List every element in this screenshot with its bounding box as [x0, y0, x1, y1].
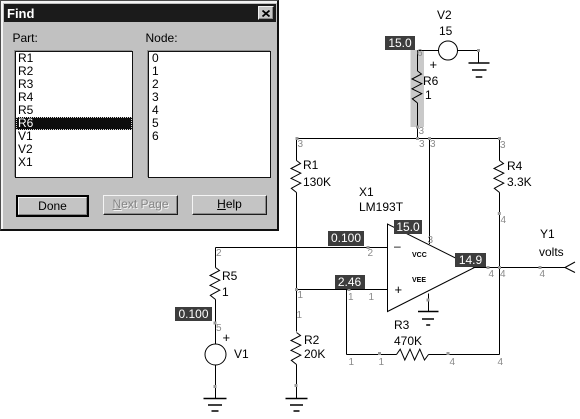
label X1: [359, 186, 374, 198]
V2 plus sign: [430, 59, 438, 71]
node 4 (R4 bottom pin): [501, 216, 507, 226]
resistor R3: [347, 349, 500, 360]
resistor R5: [210, 248, 220, 345]
node 4 (R3 right corner): [498, 358, 504, 368]
node 3 (vcc pin): [428, 236, 434, 246]
node 3 (R1): [298, 140, 304, 150]
label R4: [507, 160, 522, 172]
node 4 (output left): [489, 270, 495, 280]
value 1 (R6): [425, 89, 432, 101]
node 1 (R3 left): [349, 358, 355, 368]
value 3.3K: [507, 176, 532, 188]
label V2: [437, 9, 452, 21]
op-amp plus sign: [395, 284, 403, 296]
label R6: [423, 75, 438, 87]
value badge 15.0 (top): [385, 36, 415, 50]
label R5: [222, 270, 237, 282]
op-amp vcc pin label: [412, 250, 427, 262]
Node listbox: [148, 51, 271, 178]
node 1 (plus pin): [369, 293, 375, 303]
wire plus input: [297, 289, 388, 291]
node 3 bus wire: [297, 138, 500, 140]
value badge 14.9 (output): [455, 253, 486, 267]
value 1 (R5): [222, 286, 229, 298]
value badge 0.100 (V1): [175, 307, 212, 321]
value 130K: [303, 176, 331, 188]
node 4 (R3 right pin): [450, 358, 456, 368]
node 1 (R2 top): [297, 311, 303, 321]
label V1: [234, 348, 249, 360]
node 2 (minus pin): [368, 249, 374, 259]
wire V1 to ground: [215, 365, 217, 399]
resistor R4: [494, 139, 504, 355]
voltage source V2: [439, 41, 458, 60]
wire R3 feedback drop: [346, 290, 348, 355]
node 4 (Y1 pin): [540, 270, 546, 280]
Part: label: [13, 31, 38, 45]
wire output: [475, 267, 566, 269]
value 20K: [304, 348, 325, 360]
value badge 15.0 (vcc): [394, 220, 422, 234]
node 6: [417, 49, 423, 59]
output terminal Y1 fan: [565, 262, 575, 273]
node 5 (V1 top): [216, 324, 222, 334]
Help button: [192, 195, 267, 215]
label R1: [303, 159, 318, 171]
resistor R2: [291, 333, 301, 399]
node 1 (R3 drop): [348, 293, 354, 303]
V1 plus sign: [223, 332, 231, 344]
resistor R6: [412, 51, 422, 139]
title bar: [4, 4, 276, 22]
value badge 2.46 (plus input): [335, 275, 365, 289]
Find dialog: [0, 0, 279, 231]
ground G3 (R2): [286, 399, 308, 412]
ground G4 (VEE): [418, 312, 439, 326]
op-amp U1 triangle: [388, 224, 475, 312]
Part listbox: [15, 51, 133, 178]
node 1 (plus corner): [298, 291, 304, 301]
wire minus input: [216, 247, 388, 249]
value 15: [439, 25, 452, 37]
node 3 (R4 top): [500, 141, 506, 151]
value LM193T: [359, 201, 403, 213]
label R3: [394, 319, 409, 331]
value 470K: [394, 335, 422, 347]
wire op-amp VCC: [429, 139, 431, 245]
Node: label: [146, 31, 178, 45]
node 3 (R6 bottom): [419, 127, 425, 137]
node 4 (output mid): [500, 270, 506, 280]
label volts: [539, 246, 564, 258]
wire op-amp VEE to ground: [428, 294, 430, 312]
R6 selection highlight band: [411, 50, 425, 127]
op-amp vee pin label: [412, 275, 426, 287]
label Y1: [540, 228, 555, 240]
Done button (default): [16, 195, 89, 217]
Next Page button (disabled): [103, 195, 178, 215]
wire V2 left: [418, 50, 439, 52]
op-amp minus sign: [394, 240, 401, 252]
node 3 (bus left of vcc): [419, 140, 425, 150]
node 3 (bus right of vcc): [430, 140, 436, 150]
resistor R1: [291, 139, 301, 332]
close button: [258, 6, 274, 20]
value badge 0.100 (minus input): [328, 231, 364, 246]
node 2 (R5 top): [216, 249, 222, 259]
grey pin ticks: [214, 49, 542, 388]
ground G1 (V2): [469, 63, 490, 77]
voltage source V1: [205, 344, 226, 365]
node 1 (R3 pin): [379, 358, 385, 368]
ground G2 (V1): [204, 399, 227, 412]
wire V2 right to ground: [458, 51, 479, 63]
label R2: [304, 334, 319, 346]
